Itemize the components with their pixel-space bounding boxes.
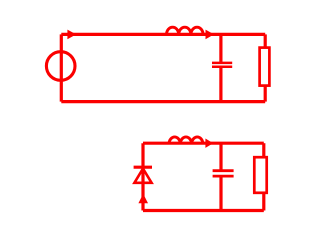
diode D1 triangle (outline, apex up) — [134, 169, 151, 183]
diode D1 cathode bar — [134, 166, 152, 169]
wire right branch lower stub — [264, 86, 267, 102]
wire left branch (continuous through diode) — [141, 143, 144, 210]
wire bottom — [61, 100, 265, 103]
current arrow 2 (top wire, right-pointing, after inductor) — [206, 30, 215, 40]
wire right branch upper stub — [264, 34, 267, 48]
wire capacitor branch lower — [219, 67, 222, 101]
current source V1 (circle) — [46, 52, 75, 81]
inductor L1 (3 humps on top wire) — [167, 27, 204, 34]
wire capacitor branch lower — [219, 176, 222, 210]
current arrow 3 (left branch, up-pointing, below diode) — [138, 194, 148, 203]
wire top: left corner to right corner — [61, 33, 265, 36]
current arrow 4 (top wire, right-pointing, after inductor) — [205, 139, 213, 148]
capacitor C1 plates — [212, 62, 232, 65]
wire right branch lower stub — [262, 193, 265, 211]
resistor R2 (box, white fill) — [254, 157, 266, 193]
wire top — [143, 142, 264, 145]
wire capacitor branch upper — [219, 34, 222, 62]
inductor L2 (3 humps on top wire) — [169, 137, 203, 143]
wire capacitor branch upper — [219, 143, 222, 169]
resistor R1 (box, white fill) — [260, 48, 270, 86]
current arrow 1 (top wire, right-pointing, near source) — [67, 30, 76, 40]
wire right branch upper stub — [262, 143, 265, 157]
wire bottom — [143, 209, 264, 212]
capacitor C2 plates — [213, 169, 234, 172]
wire left branch through source — [60, 34, 63, 101]
